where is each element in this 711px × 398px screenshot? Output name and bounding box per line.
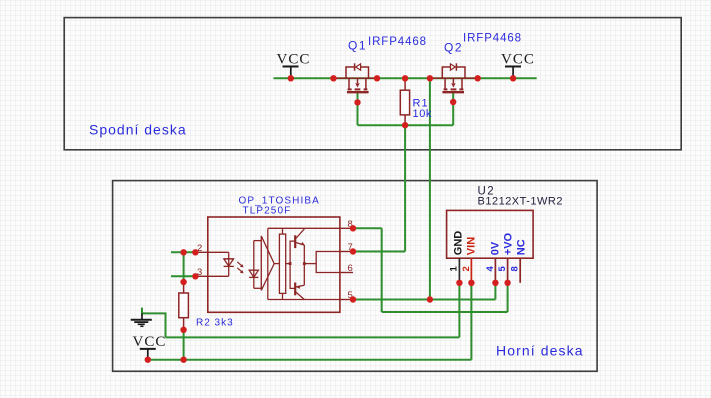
junction R2 column top bbox=[180, 249, 186, 255]
opto pin 7 stub bbox=[340, 251, 353, 253]
wire GND net horizontal bbox=[166, 336, 460, 338]
junction R2 top pin bbox=[180, 279, 186, 285]
opto pin 8 stub bbox=[340, 227, 353, 229]
optocoupler OP_1 box bbox=[208, 217, 340, 312]
U2 pin 4 stub bbox=[494, 258, 496, 283]
junction opto pin8 bbox=[350, 225, 356, 231]
junction Q1 gate pin bbox=[354, 99, 360, 105]
opto internal bottom rail bbox=[268, 299, 340, 301]
svg-text:TLP250F: TLP250F bbox=[243, 206, 292, 217]
resistor R2 bbox=[179, 282, 189, 330]
opto internal photodiode bbox=[249, 241, 261, 289]
transistor Q2 bbox=[433, 63, 478, 92]
power VCC left symbol bbox=[283, 67, 299, 79]
resistor R1 bbox=[400, 78, 409, 125]
wire pin8 drop vertical bbox=[381, 228, 383, 312]
junction Q1 source pin bbox=[374, 75, 380, 81]
junction Q1 drain pin bbox=[330, 75, 336, 81]
U2 pin 1 stub bbox=[458, 258, 460, 283]
junction VCC bottom bbox=[145, 357, 151, 363]
power VCC right symbol bbox=[505, 67, 521, 79]
svg-text:Q1: Q1 bbox=[348, 39, 367, 53]
wire VCC bottom net horizontal bbox=[148, 359, 472, 361]
opto internal amplifier triangle bbox=[261, 236, 274, 290]
opto pin 6 stub bbox=[340, 272, 353, 274]
svg-text:Spodní deska: Spodní deska bbox=[89, 122, 187, 138]
junction R1 bottom bbox=[402, 122, 408, 128]
junction U2 pin5 bbox=[504, 280, 510, 286]
wire Q2 gate stub bbox=[452, 93, 454, 125]
frame Spodni deska board box bbox=[64, 18, 681, 150]
svg-text:10k: 10k bbox=[413, 108, 433, 120]
wire gate net horizontal bbox=[358, 124, 454, 126]
svg-text:IRFP4468: IRFP4468 bbox=[463, 33, 522, 45]
svg-text:GND: GND bbox=[453, 231, 465, 256]
svg-text:6: 6 bbox=[348, 263, 353, 274]
wire U2 pin4 vertical bbox=[494, 283, 496, 300]
wire U2 pin2 vertical bbox=[470, 283, 472, 360]
opto internal top rail bbox=[268, 227, 340, 229]
wire Q1 gate stub bbox=[357, 93, 359, 125]
svg-text:+VO: +VO bbox=[503, 232, 515, 255]
junction R2 bottom pin bbox=[180, 327, 186, 333]
U2 pin 5 stub bbox=[507, 258, 509, 283]
frame Horni deska board box bbox=[113, 181, 597, 372]
wire opto pin5 to U2 pin4 horizontal bbox=[353, 299, 495, 301]
opto internal LED input bbox=[208, 252, 234, 276]
junction R2 VCC net bbox=[180, 357, 186, 363]
svg-text:Q2: Q2 bbox=[444, 41, 463, 55]
wire U2 pin1 vertical bbox=[458, 283, 460, 338]
junction VCC left bbox=[288, 75, 294, 81]
opto pin 5 stub bbox=[340, 299, 353, 301]
junction opto pin7 bbox=[350, 248, 356, 254]
wire R2 bottom column bbox=[183, 330, 185, 360]
svg-text:4: 4 bbox=[485, 266, 496, 272]
svg-text:IRFP4468: IRFP4468 bbox=[368, 36, 427, 48]
svg-text:0V: 0V bbox=[490, 241, 502, 255]
junction U2 pin1 bbox=[456, 280, 462, 286]
wire opto pin8 horizontal bbox=[353, 227, 382, 229]
opto pin 3 stub bbox=[195, 275, 207, 277]
svg-text:8: 8 bbox=[510, 266, 521, 271]
wire main VCC rail bbox=[274, 77, 537, 79]
svg-text:2: 2 bbox=[461, 266, 472, 271]
junction opto pin3 bbox=[192, 273, 198, 279]
wire gate net to opto pin7 vertical bbox=[404, 125, 406, 251]
ground GND symbol bbox=[131, 313, 152, 326]
opto internal base bracket bbox=[289, 241, 295, 288]
wire U2 pin5 vertical bbox=[507, 283, 509, 312]
junction mid rail bbox=[427, 75, 433, 81]
wire opto pin2 horizontal bbox=[171, 251, 195, 253]
U2 pin 2 stub bbox=[470, 258, 472, 283]
svg-text:VCC: VCC bbox=[501, 52, 535, 68]
U2 pin 8 stub bbox=[519, 258, 521, 283]
opto internal supply vertical bbox=[267, 228, 269, 299]
opto pin 2 stub bbox=[195, 251, 207, 253]
svg-text:Horní deska: Horní deska bbox=[496, 343, 584, 359]
IC U2 box bbox=[447, 210, 533, 258]
svg-text:VIN: VIN bbox=[466, 237, 478, 255]
power VCC bottom symbol bbox=[140, 349, 156, 360]
svg-text:5: 5 bbox=[497, 266, 508, 272]
wire pin8 to U2 pin5 horizontal bbox=[382, 311, 508, 313]
svg-text:B1212XT-1WR2: B1212XT-1WR2 bbox=[478, 196, 563, 208]
junction U2 pin4 bbox=[492, 280, 498, 286]
wire mid rail drop vertical bbox=[429, 78, 431, 299]
wire GND symbol link bbox=[142, 308, 166, 338]
svg-text:NC: NC bbox=[516, 239, 528, 255]
opto internal lower transistor bbox=[295, 283, 304, 300]
opto internal upper transistor bbox=[295, 229, 304, 248]
junction Q2 gate pin bbox=[450, 99, 456, 105]
opto internal emitter vertical and output bbox=[303, 245, 340, 285]
svg-text:VCC: VCC bbox=[277, 52, 311, 68]
svg-text:R2 3k3: R2 3k3 bbox=[196, 318, 234, 329]
wire opto pin3 horizontal bbox=[171, 275, 195, 277]
junction R1 top bbox=[402, 75, 408, 81]
wire opto pin7 horizontal bbox=[353, 251, 405, 253]
junction VCC right bbox=[510, 75, 516, 81]
opto internal mid line bbox=[274, 263, 290, 265]
opto light arrows bbox=[237, 262, 243, 274]
svg-text:VCC: VCC bbox=[133, 334, 167, 350]
junction opto pin5 bbox=[350, 296, 356, 302]
junction Q2 source pin bbox=[475, 75, 481, 81]
junction U2 pin2 bbox=[468, 280, 474, 286]
opto internal resistor bbox=[279, 228, 285, 299]
junction mid vertical to pin4 net bbox=[427, 296, 433, 302]
svg-text:1: 1 bbox=[449, 266, 460, 272]
transistor Q1 bbox=[335, 63, 379, 92]
junction opto pin2 bbox=[192, 249, 198, 255]
wire R2 top column bbox=[183, 252, 185, 282]
